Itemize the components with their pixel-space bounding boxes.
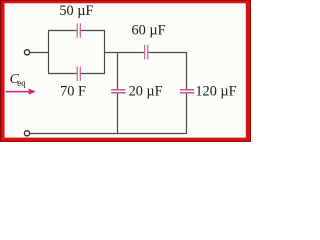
svg-text:eq: eq [17, 78, 26, 88]
wire: bottom rail [30, 133, 187, 135]
white interior [5, 3, 246, 137]
wire: top terminal to box [30, 52, 49, 54]
wire: box bottom edge (gap for 70F plates) [48, 73, 105, 75]
wire: box top edge (gap for 50uF plates) [48, 30, 105, 32]
capacitor 20 uF plates [111, 90, 125, 93]
svg-text:70 F: 70 F [60, 84, 86, 100]
svg-text:120 µF: 120 µF [195, 83, 236, 99]
capacitor 120 uF plates [180, 90, 194, 93]
svg-text:60 µF: 60 µF [131, 23, 165, 39]
capacitor 60 uF plates [145, 45, 148, 60]
svg-text:20 µF: 20 µF [129, 83, 163, 99]
red border band [1, 1, 250, 142]
arrow for C_eq [6, 89, 36, 95]
outer dark red frame [0, 0, 251, 142]
svg-text:50 µF: 50 µF [59, 3, 93, 19]
wire: box right edge [104, 30, 106, 74]
wire: right vertical branch (gap for 120uF plates) [186, 52, 188, 134]
capacitor 70 F plates [77, 67, 80, 81]
capacitor 50 uF plates [77, 23, 80, 37]
terminal (bottom-left open circle) [24, 131, 29, 136]
terminal (top-left open circle) [24, 50, 29, 55]
wire: box to 60uF and on to top-right corner [105, 52, 188, 54]
wire: middle vertical branch (gap for 20uF plates) [117, 53, 119, 134]
wire: box left edge [48, 30, 50, 74]
